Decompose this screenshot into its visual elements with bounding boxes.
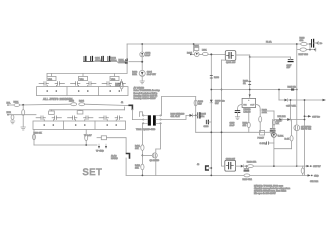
node R mid: [142, 155, 144, 157]
box B divider 1: [63, 121, 65, 129]
testpoint arrow 1: [98, 144, 100, 149]
wire regulator drop: [193, 44, 195, 52]
svg-text:SET: SET: [83, 167, 103, 177]
wire vertical from top rail to D201: [126, 44, 128, 59]
resistor R216 on top rail: [301, 42, 307, 45]
node rail/zener: [141, 43, 143, 45]
node bottom rail crossings: [142, 175, 144, 177]
svg-text:R215 1R: R215 1R: [288, 86, 297, 89]
resistor R221: [290, 136, 293, 141]
node H15 V8: [296, 165, 298, 167]
wire C209 to ground: [237, 112, 239, 116]
node V9 mid: [304, 115, 306, 117]
svg-text:10uF 25V: 10uF 25V: [147, 73, 157, 76]
wire R107 legs: [85, 129, 87, 135]
wire R204 stubs: [121, 80, 123, 83]
wire TR3 drop: [114, 73, 116, 76]
connector J1 top: [129, 105, 132, 109]
wire zener drop from rail: [141, 44, 143, 52]
svg-text:R106 1K: R106 1K: [34, 131, 43, 134]
wire C214 link: [269, 142, 274, 144]
node bus crossing V6: [221, 131, 223, 133]
terminal B-: [314, 49, 316, 51]
capacitor bank C101: [84, 57, 92, 62]
svg-text:D204: D204: [187, 51, 193, 54]
svg-text:PC817: PC817: [258, 136, 265, 139]
wire dc bus lower: [196, 131, 274, 133]
ground below R102: [21, 127, 26, 130]
resistor R204: [120, 82, 123, 89]
regulator Q202 box: [225, 160, 236, 171]
svg-text:MUR: MUR: [132, 73, 137, 76]
resistor R101: [14, 104, 20, 107]
terminal OUT R- arrow: [307, 165, 310, 167]
ground IC left: [235, 117, 239, 120]
svg-text:Q202 2SJ: Q202 2SJ: [226, 157, 235, 160]
wire out rail B: [279, 99, 323, 101]
svg-text:SBL FLAT: SBL FLAT: [171, 115, 181, 118]
wire B2 drop: [79, 109, 81, 112]
wire secondary top horizontal: [162, 96, 196, 98]
diode D201: [126, 59, 128, 64]
wire rail V6 long: [221, 60, 223, 166]
terminal bottom rail arrow: [308, 174, 311, 176]
svg-text:TP GND: TP GND: [96, 150, 104, 153]
svg-text:+15V 0.5A: +15V 0.5A: [286, 105, 296, 108]
wire V9 column: [304, 100, 306, 175]
transformer T201 core right: [153, 115, 156, 125]
wire C211 stub: [272, 120, 274, 129]
resistor R104 series: [79, 103, 85, 106]
wire TR1 drop: [51, 73, 53, 76]
svg-text:R220 0R1: R220 0R1: [243, 178, 253, 181]
svg-text:Q201 2SJ: Q201 2SJ: [226, 61, 235, 64]
capacitor C206 small: [206, 120, 208, 124]
wire Q8 source: [155, 158, 157, 176]
resistor R214 column: [259, 110, 261, 116]
terminal OUT mid arrow: [305, 115, 309, 117]
wire D204 to L201: [199, 53, 202, 55]
resistor R212: [247, 122, 250, 127]
connector J2: [127, 154, 130, 159]
shunt reg U3 TL431: [272, 133, 277, 138]
svg-text:L78L05: L78L05: [244, 111, 252, 114]
wire B1 drop: [51, 110, 53, 111]
node rectifier: [195, 115, 197, 117]
svg-text:MADE in TP330RL 5003 case: MADE in TP330RL 5003 case: [254, 184, 284, 187]
svg-text:240R: 240R: [262, 111, 267, 114]
resistor R217: [300, 48, 306, 51]
resistor R107: [85, 135, 88, 141]
svg-text:T201 PQ2625-4WD: T201 PQ2625-4WD: [136, 128, 156, 131]
wire input R: [8, 114, 36, 116]
wire D201 emitter to zener column: [129, 61, 142, 63]
jfet pair row B3: [99, 116, 123, 121]
wire fb divider column: [291, 120, 293, 149]
transistor Q8: [152, 153, 157, 158]
wire bottom left bus: [34, 144, 97, 146]
transformer right pins: [156, 115, 162, 124]
inductor L201: [203, 52, 209, 55]
wire J1 to transformer: [132, 109, 142, 119]
terminal B+: [317, 42, 319, 44]
capacitor C211: [270, 129, 275, 131]
resistor R210 on riser: [249, 81, 251, 84]
wire rail V5 long: [210, 55, 212, 176]
svg-text:D11 D12: D11 D12: [278, 115, 287, 118]
wire IC bottom pin: [248, 108, 250, 123]
connector J3: [206, 166, 209, 170]
node regulator drop: [193, 43, 195, 45]
wire R213 link: [267, 110, 274, 112]
node cap bus junction: [125, 62, 127, 64]
transistor Q7 IRF510: [296, 44, 298, 124]
node input junction: [22, 104, 24, 106]
wire C212 stub: [245, 166, 247, 169]
node R217 junctions: [309, 49, 311, 51]
wire D204 left stub: [191, 53, 195, 55]
wire transformer leg column: [141, 123, 143, 145]
svg-text:MADE in 330uH case, then R112: MADE in 330uH case, then R112: [254, 190, 287, 193]
wire secondary aux drop: [156, 123, 161, 149]
wire cap group joins: [84, 60, 111, 62]
wire IC vin riser: [249, 57, 251, 98]
opto U2 box: [260, 130, 265, 135]
wire box B top rail: [50, 109, 125, 111]
regulator Q201 box: [225, 51, 236, 61]
resistor R219 vertical: [301, 168, 304, 173]
node mid rail at IC riser: [249, 89, 251, 91]
box B internal nodes: [43, 124, 117, 126]
box B divider 2: [94, 121, 96, 129]
wire aux to Q8 top: [155, 149, 157, 153]
diode D207: [279, 118, 282, 121]
testpoint arrow 2: [105, 144, 107, 149]
node R107 bus: [85, 144, 87, 146]
wire connector to bottom rail: [125, 158, 127, 175]
node top rail cap: [309, 43, 311, 45]
svg-text:Drawing CMOS-4125 (*): Drawing CMOS-4125 (*): [134, 94, 158, 97]
diode D205 on V5: [210, 100, 213, 103]
fuse F2 on mid rail: [291, 88, 294, 90]
svg-text:AT DAVES: AT DAVES: [134, 87, 145, 90]
wire box B left leg: [33, 129, 35, 145]
svg-text:OUT 5V: OUT 5V: [313, 165, 321, 168]
box B jfet array: [33, 121, 126, 129]
wire box B rail riser: [124, 107, 126, 110]
wire Q7 source down: [296, 131, 298, 166]
svg-text:R201: R201: [194, 45, 200, 48]
node emitter junction: [141, 61, 143, 63]
trimmer box TR2: [79, 76, 88, 80]
svg-text:R208: R208: [214, 76, 220, 79]
node D209 out: [246, 165, 248, 167]
resistor R105 shunt: [11, 115, 14, 120]
transformer snubber loop: [140, 112, 143, 117]
node V9 diode row: [304, 119, 306, 121]
node out rail B: [278, 89, 280, 91]
svg-text:TL431: TL431: [278, 134, 285, 137]
svg-text:SMPS +12: SMPS +12: [301, 128, 312, 131]
box A internal nodes: [46, 90, 120, 92]
resistor R203: [194, 100, 197, 106]
svg-text:10K: 10K: [135, 147, 139, 150]
wire capacitor bank bus: [84, 61, 117, 63]
bias box reg: [194, 47, 199, 50]
trimmer box TR1: [47, 76, 56, 80]
svg-text:C 100p: C 100p: [260, 142, 268, 145]
resistor R102 shunt: [22, 110, 25, 116]
wire cap bus to D201: [117, 62, 126, 64]
svg-text:10uF: 10uF: [145, 54, 150, 57]
wire Q201 bottom pin to V6: [222, 59, 231, 61]
svg-text:R103: R103: [69, 100, 75, 103]
wire TR2 drop: [82, 73, 84, 76]
wire cap to terminal: [314, 42, 317, 44]
svg-text:C51 R32: C51 R32: [310, 180, 319, 183]
IC pin arrow: [249, 94, 251, 97]
box A jfet array: [37, 87, 129, 96]
wire V6 into Q202: [222, 165, 225, 167]
capacitor C output: [312, 39, 314, 47]
trimmer box TR3: [110, 76, 119, 80]
wire R102 to ground: [22, 105, 24, 110]
wire R219 legs: [302, 166, 304, 168]
fuse bars on V5: [210, 76, 212, 79]
node rail B to diode row: [290, 99, 292, 101]
svg-text:idle spec is 130-230W: idle spec is 130-230W: [254, 192, 276, 195]
capacitor C207: [288, 60, 293, 62]
diode D210 on rail B: [285, 99, 288, 102]
capacitor C214: [267, 142, 269, 144]
resistor R218: [248, 165, 254, 168]
diode D209: [241, 165, 244, 168]
resistor R106: [33, 134, 36, 140]
svg-text:GND: GND: [314, 174, 319, 177]
wire junction to diode row: [290, 100, 292, 120]
wire C207 stub: [290, 57, 292, 60]
svg-text:Q8 2SK30: Q8 2SK30: [150, 159, 160, 162]
svg-text:VIN: VIN: [243, 103, 247, 106]
wire U3 cathode down: [273, 137, 275, 166]
node V9 top: [304, 99, 306, 101]
wire IC left pin: [238, 105, 243, 111]
transformer T201 core left: [148, 115, 151, 125]
diode D202: [186, 114, 196, 117]
wire V19 column: [273, 111, 275, 132]
wire center connector drop: [125, 138, 127, 153]
wire zener to node: [141, 57, 143, 70]
svg-text:IN R: IN R: [7, 111, 12, 114]
node reg out / IC feed: [249, 56, 251, 58]
wire box A top rail: [47, 73, 127, 76]
node V5 top: [210, 53, 212, 55]
svg-text:R217 3R3: R217 3R3: [299, 53, 309, 56]
wire out rail B drop: [278, 90, 280, 101]
node Q7 top rail: [296, 43, 298, 45]
svg-text:Drawing CMOS-4WD5: Drawing CMOS-4WD5: [134, 97, 157, 100]
wire R104 to connector: [85, 104, 128, 105]
zener D202 circle: [140, 52, 145, 57]
IC U201 box: [242, 98, 256, 107]
wire B3 to center: [107, 137, 127, 139]
svg-text:10uF: 10uF: [230, 124, 235, 127]
svg-text:10K: 10K: [135, 166, 139, 169]
bias box B3: [101, 136, 106, 140]
wire C205 stub: [196, 114, 198, 116]
wire diode row: [274, 119, 305, 121]
jfet pair row A3: [102, 82, 126, 87]
Q201 internal mosfet: [227, 53, 234, 59]
wire out lower right: [297, 165, 307, 167]
wire secondary top riser: [161, 97, 163, 116]
bias box B1: [49, 111, 55, 114]
svg-text:C208: C208: [204, 125, 210, 128]
svg-text:R 1K: R 1K: [285, 137, 290, 140]
svg-text:R101: R101: [14, 100, 20, 103]
diode D203 circle: [139, 70, 145, 76]
wire R217 row: [306, 49, 314, 51]
svg-text:R218 10R: R218 10R: [247, 161, 257, 164]
Q202 internal mosfet: [226, 162, 233, 168]
wire rectifier column: [195, 97, 197, 133]
wire diode to ground: [141, 76, 143, 81]
jfet pair row A1: [39, 82, 65, 87]
wire fb link: [274, 148, 292, 150]
svg-text:R104: R104: [79, 100, 85, 103]
node U3 at out wire: [273, 165, 275, 167]
node J3: [210, 167, 212, 169]
svg-text:F1 2A: F1 2A: [266, 41, 272, 44]
arrow out rail terminal: [323, 99, 327, 102]
svg-text:Check in menu-photo for using: Check in menu-photo for using return: [254, 187, 291, 190]
wire top rail V+: [127, 43, 311, 45]
node bus crossing V5: [210, 131, 212, 133]
ground below D203: [140, 81, 144, 84]
ground below R105: [10, 121, 14, 124]
wire to Q8: [142, 154, 152, 156]
wire reg out step: [250, 55, 291, 57]
box A divider 1: [66, 87, 68, 96]
wire R212 to bus: [248, 128, 250, 133]
jfet pair row A2: [71, 82, 97, 87]
diode D204 circle: [195, 52, 200, 57]
diode D208: [287, 118, 290, 121]
jfet pair row B2: [68, 116, 94, 121]
wire bottom long rail: [126, 174, 307, 176]
svg-text:OUT R+: OUT R+: [312, 115, 320, 118]
wire mid rail A: [211, 89, 296, 91]
jfet pair row B1: [36, 116, 62, 121]
box A divider 2: [98, 87, 100, 96]
capacitor bank C102: [101, 57, 109, 62]
wire input L to center: [20, 103, 71, 106]
capacitor C205: [198, 113, 200, 118]
wire Q202 out: [236, 165, 297, 167]
wire Q201 out: [236, 54, 250, 56]
node mid rail at V5: [210, 89, 212, 91]
wire IC right pin: [256, 105, 261, 111]
wire C206 stub: [208, 121, 211, 123]
resistor R220 on bottom rail: [244, 174, 250, 177]
wire J3 link: [209, 167, 212, 169]
svg-text:50V: 50V: [215, 102, 219, 105]
node V6 mid rail: [221, 89, 223, 91]
capacitor C209: [235, 111, 240, 113]
node mid rail at V8: [296, 89, 298, 91]
wire L201 to Q201: [208, 53, 225, 55]
resistor R214b: [273, 120, 276, 125]
svg-text:22K: 22K: [115, 85, 119, 88]
svg-text:Note: TP2SK4UBL is setup: Note: TP2SK4UBL is setup: [134, 89, 161, 92]
wire secondary lower link: [162, 115, 187, 119]
svg-text:MAINS: MAINS: [111, 157, 118, 160]
bias box B2: [77, 111, 83, 114]
resistor R103 series: [71, 103, 77, 106]
resistor R402: [141, 164, 144, 170]
transformer left pins: [143, 115, 148, 124]
wire cap lower link: [309, 44, 311, 50]
capacitor C212: [244, 169, 249, 171]
ground C211: [270, 134, 274, 137]
IC internal marks: [243, 100, 255, 107]
wire D201 to box A rail: [126, 64, 128, 74]
wire B3 left stub: [97, 137, 101, 139]
svg-text:thread: if polarized foil in: thread: if polarized foil in: [134, 92, 158, 95]
resistor R401: [141, 145, 144, 151]
